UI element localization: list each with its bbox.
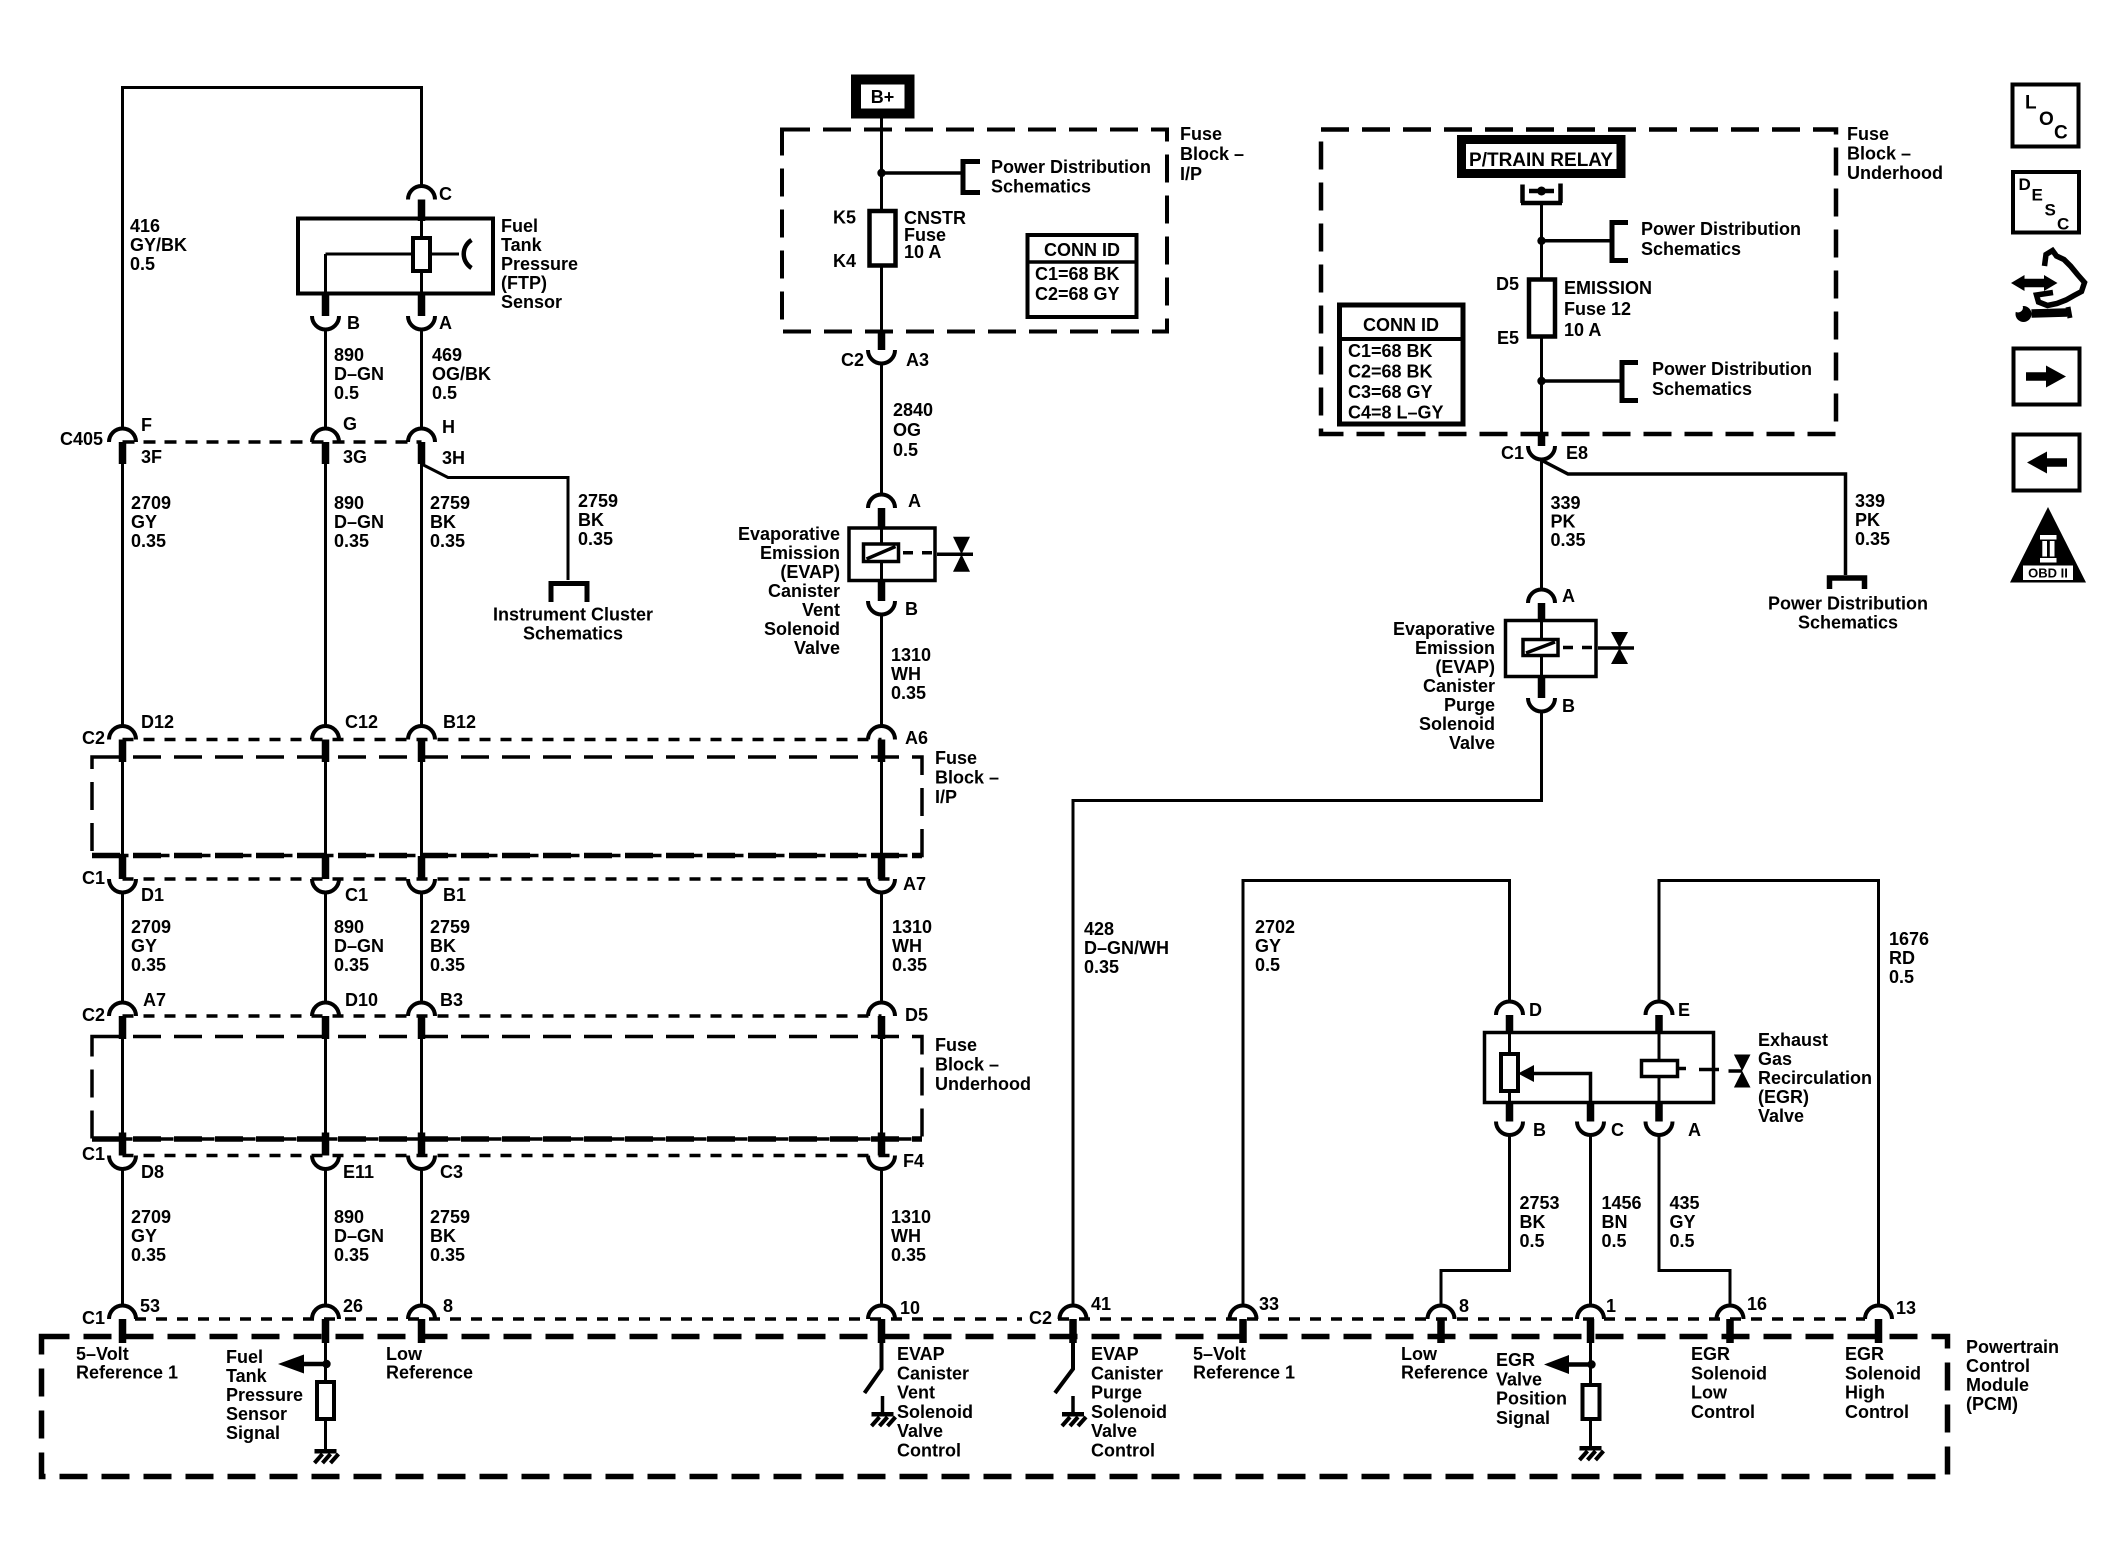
label 890 D-GN 0.5 [334, 345, 384, 403]
svg-text:D–GN: D–GN [334, 936, 384, 956]
wire D5-F4 [880, 1039, 883, 1134]
svg-text:GY: GY [131, 512, 157, 532]
svg-text:B1: B1 [443, 885, 466, 905]
label 2759 BK 0.35 (3) [430, 1207, 470, 1265]
svg-text:Power Distribution: Power Distribution [1652, 359, 1812, 379]
svg-text:A: A [908, 491, 921, 511]
svg-text:C4=8 L–GY: C4=8 L–GY [1348, 403, 1444, 423]
label 469 OG/BK 0.5 [432, 345, 491, 403]
label Power Distribution Schematics (UH 1) [1641, 219, 1801, 259]
wire B12-B1 [420, 762, 423, 857]
svg-text:Underhood: Underhood [935, 1074, 1031, 1094]
svg-text:C3: C3 [440, 1162, 463, 1182]
connector E (EGR) [1646, 1000, 1691, 1034]
wire C12-C1 [324, 762, 327, 857]
svg-text:D–GN: D–GN [334, 512, 384, 532]
svg-text:Purge: Purge [1091, 1383, 1142, 1403]
svg-text:Control: Control [897, 1441, 961, 1461]
icon DESC box [2013, 172, 2079, 234]
svg-text:2759: 2759 [430, 493, 470, 513]
label 2759 BK 0.35 (branch) [578, 491, 618, 549]
label C405 [60, 429, 103, 449]
label Evaporative Emission (EVAP) Canister Vent Solenoid Valve [738, 524, 840, 658]
wire fuse to box bottom [1540, 337, 1543, 435]
svg-text:Canister: Canister [1091, 1363, 1163, 1383]
svg-text:Canister: Canister [1423, 676, 1495, 696]
wire 1310 B to A6 [880, 615, 883, 727]
svg-text:Solenoid: Solenoid [1691, 1363, 1767, 1383]
svg-text:Power Distribution: Power Distribution [1641, 219, 1801, 239]
dotted line PCM row [135, 1317, 1865, 1321]
svg-text:Power Distribution: Power Distribution [991, 157, 1151, 177]
svg-text:5–Volt: 5–Volt [1193, 1344, 1246, 1364]
solenoid coil (EGR) [1642, 1061, 1687, 1077]
label 2709 GY 0.35 (3) [131, 1207, 171, 1265]
relay pin symbol [1521, 184, 1562, 204]
wire EGR solenoid vertical [1658, 1033, 1661, 1103]
connector C3 [408, 1133, 463, 1183]
wire pin 1 internal [1589, 1343, 1592, 1385]
pin C (EGR) [1577, 1103, 1624, 1141]
label 890 D-GN 0.35 (1) [334, 493, 384, 551]
svg-text:Underhood: Underhood [1847, 163, 1943, 183]
svg-text:C2=68 GY: C2=68 GY [1035, 284, 1120, 304]
connector E11 [312, 1133, 374, 1183]
svg-text:Schematics: Schematics [1798, 613, 1898, 633]
svg-text:C12: C12 [345, 712, 378, 732]
svg-text:E: E [2032, 186, 2043, 205]
svg-text:GY: GY [131, 1226, 157, 1246]
svg-text:0.5: 0.5 [1520, 1231, 1545, 1251]
connector B3 [408, 990, 463, 1039]
wire switch to ground (41) [1071, 1396, 1075, 1412]
label Fuse Block - I/P (top) [1180, 124, 1244, 184]
label EGR Solenoid High Control [1845, 1344, 1921, 1422]
svg-text:Instrument Cluster: Instrument Cluster [493, 605, 653, 625]
svg-text:C: C [2057, 215, 2069, 234]
svg-text:H: H [442, 417, 455, 437]
wire 2759 (3) [420, 1169, 423, 1306]
svg-text:E11: E11 [343, 1162, 374, 1182]
svg-text:C1: C1 [1501, 443, 1524, 463]
svg-text:A6: A6 [905, 728, 928, 748]
svg-text:890: 890 [334, 345, 364, 365]
svg-text:A: A [1562, 586, 1575, 606]
EVAP vent solenoid valve box [849, 528, 935, 581]
arrow FTP sensor signal [278, 1355, 326, 1374]
connector C12 [312, 712, 378, 762]
svg-text:(EVAP): (EVAP) [1435, 657, 1495, 677]
svg-text:C2: C2 [1029, 1308, 1052, 1328]
svg-text:I/P: I/P [1180, 164, 1202, 184]
svg-text:890: 890 [334, 1207, 364, 1227]
svg-text:33: 33 [1259, 1294, 1279, 1314]
wire resistor to ground (1) [1589, 1419, 1592, 1446]
wire to power dist bracket (UH 1) [1542, 239, 1611, 243]
label EMISSION Fuse 12 10 A [1564, 278, 1652, 340]
label E5 [1497, 328, 1519, 348]
svg-text:C3=68 GY: C3=68 GY [1348, 382, 1433, 402]
svg-text:Solenoid: Solenoid [764, 619, 840, 639]
solenoid coil (purge) [1523, 640, 1558, 656]
junction dot B+ branch [877, 169, 885, 177]
svg-text:D5: D5 [1496, 274, 1519, 294]
svg-text:1676: 1676 [1889, 929, 1929, 949]
svg-text:PK: PK [1855, 510, 1880, 530]
svg-text:Valve: Valve [897, 1421, 943, 1441]
label C2 row3 [82, 1005, 105, 1025]
label C2 row5 [1029, 1308, 1052, 1328]
svg-text:Canister: Canister [897, 1363, 969, 1383]
pin A (EGR) [1646, 1103, 1702, 1141]
pin B (EGR) [1496, 1103, 1546, 1141]
connector A (vent valve) [868, 491, 921, 529]
valve symbol (purge) [1598, 632, 1634, 664]
FTP sensor box [298, 219, 493, 294]
svg-text:890: 890 [334, 493, 364, 513]
label D5 [1496, 274, 1519, 294]
svg-text:2840: 2840 [893, 400, 933, 420]
svg-text:BK: BK [578, 510, 604, 530]
resistor pin 26 [317, 1382, 334, 1419]
PCM dashed box [42, 1337, 1948, 1477]
svg-text:0.35: 0.35 [891, 1245, 926, 1265]
wire 416 top horizontal [123, 86, 422, 89]
label 339 PK 0.35 (right) [1855, 491, 1890, 549]
svg-text:B3: B3 [440, 990, 463, 1010]
valve dashes (purge) [1563, 646, 1592, 650]
wire 2709 (2) [121, 893, 124, 1003]
svg-text:0.35: 0.35 [892, 955, 927, 975]
wire 435 A to PCM 16 [1659, 1135, 1730, 1306]
label Exhaust Gas Recirculation (EGR) Valve [1758, 1030, 1872, 1126]
svg-text:K5: K5 [833, 208, 856, 228]
dotted line row C1 (D1) [123, 877, 897, 881]
svg-text:339: 339 [1855, 491, 1885, 511]
svg-text:5–Volt: 5–Volt [76, 1344, 129, 1364]
svg-text:2709: 2709 [131, 917, 171, 937]
svg-text:Block –: Block – [935, 1055, 999, 1075]
label Evaporative Emission (EVAP) Canister Purge Solenoid Valve [1393, 619, 1495, 753]
connector D8 [109, 1133, 164, 1183]
svg-text:WH: WH [891, 664, 921, 684]
svg-text:BK: BK [1520, 1212, 1546, 1232]
svg-text:1310: 1310 [891, 645, 931, 665]
svg-text:Control: Control [1691, 1402, 1755, 1422]
fuse block underhood dashed box (right) [1321, 130, 1836, 435]
svg-text:Reference 1: Reference 1 [76, 1363, 178, 1383]
label Instrument Cluster Schematics [493, 605, 653, 644]
svg-text:0.5: 0.5 [893, 440, 918, 460]
connector C2/A3 [841, 332, 929, 371]
svg-text:D–GN: D–GN [334, 364, 384, 384]
potentiometer (EGR position sensor) [1501, 1054, 1518, 1091]
label 1310 WH 0.35 (3) [891, 1207, 931, 1265]
wire pin 26 internal [324, 1343, 327, 1382]
label 5-Volt Reference 1 (pin 33) [1193, 1344, 1295, 1383]
svg-text:I/P: I/P [935, 787, 957, 807]
wire 1456 C to PCM 1 [1589, 1135, 1592, 1306]
svg-text:Low: Low [386, 1344, 423, 1364]
svg-text:D: D [1529, 1000, 1542, 1020]
wire A6-A7 [880, 762, 883, 857]
svg-text:339: 339 [1551, 493, 1581, 513]
svg-text:Solenoid: Solenoid [1091, 1402, 1167, 1422]
svg-text:High: High [1845, 1383, 1885, 1403]
svg-text:8: 8 [443, 1296, 453, 1316]
svg-text:Fuse: Fuse [935, 748, 977, 768]
wire 890 (2) [324, 893, 327, 1003]
label 2709 GY 0.35 (1) [131, 493, 171, 551]
wire resistor to ground (26) [324, 1419, 327, 1449]
connector A (purge valve) [1528, 586, 1575, 622]
svg-text:16: 16 [1747, 1294, 1767, 1314]
svg-text:Schematics: Schematics [1652, 379, 1752, 399]
icon forward arrow box [2014, 349, 2080, 405]
svg-text:B: B [1533, 1120, 1546, 1140]
wire 339 down to A [1540, 459, 1543, 591]
label C1 row5 [82, 1308, 105, 1328]
svg-text:C: C [439, 184, 452, 204]
label Fuse Block - Underhood (right) [1847, 124, 1943, 183]
svg-text:Solenoid: Solenoid [1419, 714, 1495, 734]
svg-text:Control: Control [1966, 1356, 2030, 1376]
label 890 D-GN 0.35 (3) [334, 1207, 384, 1265]
CONN ID box (underhood) [1340, 305, 1464, 424]
svg-text:Evaporative: Evaporative [1393, 619, 1495, 639]
svg-text:0.5: 0.5 [1670, 1231, 1695, 1251]
label C1 row2 [82, 868, 105, 888]
svg-text:2759: 2759 [430, 1207, 470, 1227]
wire 2759 (2) [420, 893, 423, 1003]
svg-text:2709: 2709 [131, 493, 171, 513]
label 416 GY/BK 0.5 [130, 216, 187, 274]
svg-text:D10: D10 [345, 990, 378, 1010]
label Low Reference (pin 8 left) [386, 1344, 473, 1383]
connector C (FTP sensor) [408, 184, 452, 221]
svg-text:53: 53 [140, 1296, 160, 1316]
svg-text:8: 8 [1459, 1296, 1469, 1316]
svg-text:0.5: 0.5 [432, 383, 457, 403]
connector PCM pin 8 at x=1441 [1428, 1296, 1470, 1343]
svg-text:PK: PK [1551, 512, 1576, 532]
svg-text:0.5: 0.5 [1602, 1231, 1627, 1251]
EGR wiper arrow [1518, 1065, 1591, 1103]
svg-text:Gas: Gas [1758, 1049, 1792, 1069]
svg-text:A3: A3 [906, 350, 929, 370]
svg-text:C2: C2 [82, 1005, 105, 1025]
svg-text:C1: C1 [82, 1144, 105, 1164]
svg-text:0.35: 0.35 [334, 531, 369, 551]
pin B (vent valve) [868, 581, 918, 620]
off-page bracket power dist (I/P) [963, 162, 980, 193]
svg-text:B: B [347, 313, 360, 333]
svg-text:Pressure: Pressure [501, 254, 578, 274]
svg-text:WH: WH [892, 936, 922, 956]
svg-text:1310: 1310 [891, 1207, 931, 1227]
junction dot pin 26 [322, 1360, 330, 1368]
svg-text:Fuel: Fuel [501, 216, 538, 236]
svg-text:C2: C2 [82, 728, 105, 748]
arrow EGR valve position signal [1544, 1355, 1591, 1374]
label 2709 GY 0.35 (2) [131, 917, 171, 975]
label 1310 WH 0.35 (2) [892, 917, 932, 975]
svg-text:B12: B12 [443, 712, 476, 732]
svg-text:O: O [2039, 109, 2054, 130]
svg-text:OBD II: OBD II [2028, 566, 2068, 581]
svg-text:Vent: Vent [897, 1383, 935, 1403]
connector PCM pin 53 at x=122.5 [109, 1296, 160, 1343]
svg-text:3F: 3F [141, 447, 162, 467]
wire 416 left vertical [121, 86, 124, 429]
svg-text:D5: D5 [905, 1005, 928, 1025]
svg-text:EGR: EGR [1496, 1350, 1535, 1370]
svg-text:Power Distribution: Power Distribution [1768, 594, 1928, 614]
svg-text:0.35: 0.35 [334, 1245, 369, 1265]
wire B+ down [880, 118, 883, 213]
svg-text:1: 1 [1606, 1296, 1616, 1316]
dotted line row C2 (A7) [123, 1014, 882, 1018]
svg-text:Purge: Purge [1444, 695, 1495, 715]
svg-text:C1=68 BK: C1=68 BK [1348, 341, 1433, 361]
svg-text:Fuse: Fuse [1180, 124, 1222, 144]
wire 2759 H down [420, 464, 423, 726]
svg-text:BK: BK [430, 1226, 456, 1246]
svg-text:Block –: Block – [1847, 144, 1911, 164]
CONN ID box (I/P) [1028, 235, 1137, 317]
label Power Distribution Schematics (I/P) [991, 157, 1151, 197]
svg-text:Valve: Valve [1496, 1369, 1542, 1389]
svg-text:Tank: Tank [501, 235, 543, 255]
svg-text:0.35: 0.35 [430, 531, 465, 551]
svg-text:Evaporative: Evaporative [738, 524, 840, 544]
switch EVAP vent control [865, 1343, 882, 1393]
svg-text:C: C [1611, 1120, 1624, 1140]
off-page symbol instrument cluster [551, 584, 587, 603]
icon LOC box [2013, 85, 2079, 147]
label 5-Volt Reference 1 (pin 53) [76, 1344, 178, 1383]
wire 1310 (3) [880, 1169, 883, 1306]
connector PCM pin 1 at x=1590.5 [1577, 1296, 1616, 1343]
svg-text:Exhaust: Exhaust [1758, 1030, 1828, 1050]
svg-text:B+: B+ [871, 87, 895, 107]
wire sensor internal horizontal [326, 253, 414, 256]
connector PCM pin 41 at x=1073 [1060, 1294, 1112, 1343]
switch EVAP purge control [1055, 1343, 1073, 1393]
svg-text:41: 41 [1091, 1294, 1111, 1314]
svg-text:GY: GY [1670, 1212, 1696, 1232]
svg-text:E: E [1678, 1000, 1690, 1020]
label CNSTR Fuse 10 A [904, 208, 966, 262]
label C1 row4 [82, 1144, 105, 1164]
svg-text:S: S [2045, 201, 2056, 220]
svg-text:Fuse: Fuse [935, 1035, 977, 1055]
label K5 [833, 208, 856, 228]
label 2753 BK 0.5 [1520, 1193, 1560, 1251]
wire to power dist bracket (UH 2) [1542, 379, 1621, 383]
fuse CNSTR 10A [870, 211, 896, 266]
label 2759 BK 0.35 (2) [430, 917, 470, 975]
dotted line row C2 (D12) [123, 738, 882, 742]
connector C1/E8 [1501, 434, 1588, 463]
svg-text:2753: 2753 [1520, 1193, 1560, 1213]
svg-text:0.5: 0.5 [1889, 967, 1914, 987]
svg-text:3H: 3H [442, 448, 465, 468]
wire A7-D8 [121, 1039, 124, 1134]
B+ battery feed box [856, 80, 910, 114]
junction dot (relay branch 1) [1537, 237, 1545, 245]
connector C1 pin [312, 856, 368, 905]
junction dot pin 1 [1587, 1360, 1595, 1368]
svg-text:Fuel: Fuel [226, 1347, 263, 1367]
dashed line C405 row [123, 440, 422, 444]
off-page bracket power dist (UH 2) [1622, 363, 1638, 401]
svg-text:GY: GY [131, 936, 157, 956]
resistor FTP element [413, 238, 430, 271]
svg-text:EGR: EGR [1691, 1344, 1730, 1364]
valve symbol (vent) [937, 537, 973, 572]
connector PCM pin 13 at x=1878.5 [1865, 1298, 1916, 1343]
svg-text:EVAP: EVAP [897, 1344, 945, 1364]
svg-text:C1: C1 [345, 885, 368, 905]
wire 428 purge to PCM 41 [1073, 712, 1542, 1306]
connector B1 [408, 856, 466, 905]
wire fuse to box edge [880, 265, 883, 332]
svg-text:K4: K4 [833, 251, 856, 271]
wire vent valve internal [880, 529, 883, 581]
valve symbol (EGR) [1729, 1055, 1751, 1088]
off-page symbol power dist (right) [1830, 578, 1865, 589]
svg-text:2759: 2759 [430, 917, 470, 937]
svg-text:C2=68 BK: C2=68 BK [1348, 362, 1433, 382]
svg-text:C2: C2 [841, 350, 864, 370]
svg-text:0.35: 0.35 [891, 683, 926, 703]
svg-text:2759: 2759 [578, 491, 618, 511]
wire 469 A to H [420, 330, 423, 429]
pin B (FTP) [312, 294, 360, 334]
connector D (EGR) [1496, 1000, 1542, 1034]
label 1310 WH 0.35 (1) [891, 645, 931, 703]
EGR valve box [1485, 1033, 1714, 1103]
svg-text:Powertrain: Powertrain [1966, 1337, 2059, 1357]
svg-text:Fuse 12: Fuse 12 [1564, 299, 1631, 319]
svg-text:Block –: Block – [935, 768, 999, 788]
wire D12-D1 [121, 762, 124, 857]
svg-text:Control: Control [1091, 1441, 1155, 1461]
label Power Distribution Schematics (UH 2) [1652, 359, 1812, 399]
label 1456 BN 0.5 [1602, 1193, 1642, 1251]
svg-text:Emission: Emission [760, 543, 840, 563]
wire 1676 E to PCM 13 [1659, 881, 1879, 1306]
label Power Distribution Schematics (right) [1768, 594, 1928, 633]
svg-text:Reference: Reference [386, 1363, 473, 1383]
svg-text:Low: Low [1401, 1344, 1438, 1364]
fuse block I/P dashed box [782, 130, 1167, 332]
svg-text:2702: 2702 [1255, 917, 1295, 937]
svg-text:0.5: 0.5 [334, 383, 359, 403]
connector PCM pin 16 at x=1730 [1717, 1294, 1768, 1343]
svg-text:D–GN/WH: D–GN/WH [1084, 938, 1169, 958]
svg-text:0.35: 0.35 [1084, 957, 1119, 977]
svg-text:B: B [1562, 696, 1575, 716]
svg-text:2709: 2709 [131, 1207, 171, 1227]
label Low Reference (pin 8 right) [1401, 1344, 1488, 1383]
svg-text:EGR: EGR [1845, 1344, 1884, 1364]
connector F4 [868, 1133, 924, 1172]
svg-text:BN: BN [1602, 1212, 1628, 1232]
svg-text:0.35: 0.35 [131, 1245, 166, 1265]
svg-text:L: L [2025, 93, 2037, 114]
